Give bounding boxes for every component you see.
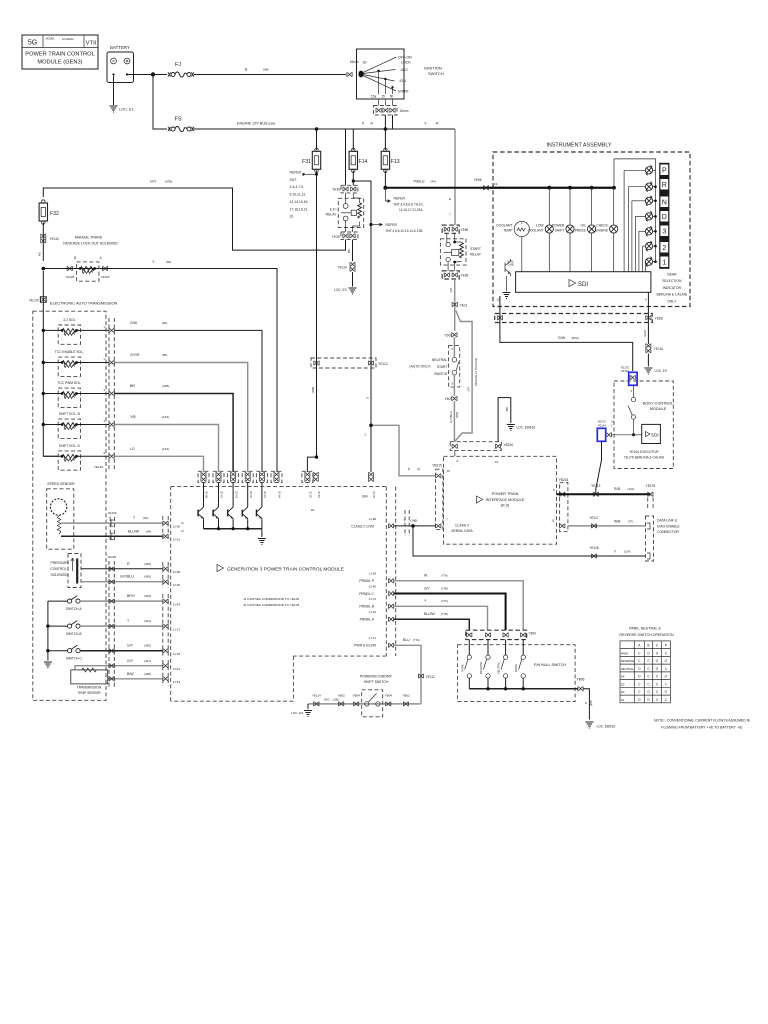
svg-text:YE117: YE117	[589, 516, 599, 520]
svg-text:5G: 5G	[28, 40, 37, 47]
svg-text:YE125: YE125	[65, 275, 74, 279]
connector YE112 pin	[314, 361, 319, 366]
connector J2-47	[216, 472, 221, 482]
wire	[43, 393, 62, 395]
ground LOC E8/E16	[507, 425, 515, 431]
fuse FS	[168, 126, 194, 131]
svg-text:YE109: YE109	[107, 511, 116, 515]
wire R	[81, 568, 163, 570]
svg-text:(436): (436)	[144, 575, 151, 579]
wire	[307, 704, 309, 709]
svg-text:(41B): (41B)	[162, 384, 169, 388]
connector 16mm pin 30	[347, 72, 352, 77]
svg-text:ENGINE: ENGINE	[595, 228, 608, 232]
connector YE86 pin 12	[497, 315, 502, 320]
connector YE129 pin	[109, 360, 114, 365]
svg-text:YE69: YE69	[461, 228, 469, 232]
connector pin 50	[390, 108, 395, 113]
fuse FJ	[168, 72, 194, 77]
svg-text:COOLANT: COOLANT	[528, 228, 544, 232]
svg-text:J2-09: J2-09	[173, 583, 181, 587]
PCM pin J1-18	[163, 648, 168, 653]
svg-text:YE129: YE129	[646, 484, 656, 488]
wire	[490, 187, 614, 189]
wire ignition 15 to bus	[384, 115, 386, 129]
svg-text:(145): (145)	[162, 415, 169, 419]
connector YE129 pin	[109, 599, 114, 604]
svg-text:SHT.3,4,5,6 & 7A,10,: SHT.3,4,5,6 & 7A,10,	[394, 202, 424, 206]
svg-text:(435): (435)	[144, 562, 151, 566]
svg-text:YB216: YB216	[504, 443, 514, 447]
svg-text:J1-57: J1-57	[317, 491, 321, 498]
svg-text:BLU/W: BLU/W	[128, 529, 140, 533]
svg-text:J2-08: J2-08	[173, 570, 181, 574]
connector YE69 pin	[452, 273, 457, 278]
ground LOC E8/E16	[585, 722, 593, 728]
connector YE129 pin	[109, 328, 114, 333]
connector YE129 pin	[109, 566, 114, 571]
connector YE11	[452, 302, 457, 307]
svg-text:YE164 EXECUTIVE: YE164 EXECUTIVE	[629, 450, 659, 454]
connector YE129	[41, 297, 46, 302]
svg-text:R: R	[436, 122, 439, 126]
wire P/R	[371, 425, 436, 476]
svg-text:LOC. E8/E16: LOC. E8/E16	[597, 725, 616, 729]
ground LOC: E3	[349, 288, 357, 294]
wire BLU/W	[394, 619, 470, 630]
svg-text:REVERSE SWITCH OPERATION: REVERSE SWITCH OPERATION	[619, 633, 674, 637]
wire	[642, 246, 644, 272]
svg-text:LOCK: LOCK	[401, 60, 411, 64]
connector YE125	[103, 266, 108, 271]
connector Y600 pin	[503, 633, 508, 638]
svg-text:ENGINE 12V BUS: ENGINE 12V BUS	[237, 122, 268, 126]
svg-text:P: P	[408, 468, 410, 472]
svg-text:LG: LG	[130, 447, 135, 451]
svg-text:RELAY: RELAY	[470, 252, 482, 256]
svg-text:DIAG ENABLE: DIAG ENABLE	[657, 524, 680, 528]
op: E.F.I relay U1	[326, 193, 364, 232]
wire Y	[394, 606, 488, 630]
svg-text:1: 1	[662, 260, 666, 267]
wire lamp to SDI	[613, 233, 615, 271]
PCM pin J2-09	[163, 579, 168, 584]
wire	[487, 640, 489, 655]
svg-text:B+: B+	[311, 508, 315, 512]
connector Y600 pin	[521, 633, 526, 638]
svg-text:START: START	[470, 247, 481, 251]
wire gear lamp	[636, 215, 646, 217]
svg-text:POWER: POWER	[552, 224, 565, 228]
svg-text:POWER TRAIN: POWER TRAIN	[492, 492, 519, 496]
svg-text:MODULE: MODULE	[650, 407, 667, 411]
svg-text:J2-43: J2-43	[234, 491, 238, 498]
wire	[42, 223, 44, 262]
svg-text:OFF-ON: OFF-ON	[398, 56, 412, 60]
gear lamp 1	[645, 165, 652, 175]
wire	[77, 329, 109, 331]
svg-text:G/Y: G/Y	[424, 586, 431, 590]
wire BR	[114, 394, 233, 473]
svg-text:SELECTION: SELECTION	[662, 279, 682, 283]
connector YB02	[403, 702, 408, 707]
ground instrument	[503, 293, 511, 299]
svg-text:ACC: ACC	[401, 68, 409, 72]
svg-text:SHT.: SHT.	[290, 178, 297, 182]
svg-text:(16B): (16B)	[268, 122, 275, 126]
gear lamp 4	[645, 211, 652, 221]
wire lamp to SDI	[569, 233, 571, 271]
ground LOC: E1	[110, 106, 118, 112]
wire	[48, 650, 68, 652]
connector YE110	[41, 234, 46, 244]
wire	[261, 529, 263, 537]
wire to ground	[498, 398, 511, 442]
connector J1-57	[313, 472, 318, 482]
wire	[653, 261, 656, 263]
svg-text:P/G: P/G	[38, 252, 42, 256]
svg-text:REVERSE: REVERSE	[479, 662, 483, 675]
wire to PCM IGN pin	[353, 181, 371, 472]
PCM pin J2-43	[163, 599, 168, 604]
svg-text:SDI: SDI	[578, 282, 588, 288]
svg-text:D1: D1	[621, 698, 625, 702]
wire	[505, 640, 507, 655]
connector YE129 pin	[109, 648, 114, 653]
svg-text:J1-18: J1-18	[173, 652, 181, 656]
svg-text:DATA LINK &: DATA LINK &	[657, 519, 678, 523]
connector strip YE129 right	[109, 318, 114, 470]
svg-text:(433): (433)	[144, 594, 151, 598]
connector YE69 pin	[444, 273, 449, 278]
svg-text:(64): (64)	[146, 529, 151, 533]
svg-text:>: >	[449, 212, 451, 216]
svg-text:J2-44: J2-44	[278, 491, 282, 498]
connector YE69 pin	[452, 227, 457, 232]
svg-text:B: B	[584, 702, 588, 704]
wire gear lamp	[624, 169, 645, 171]
svg-text:YB06: YB06	[577, 678, 585, 682]
wire	[261, 520, 263, 529]
svg-text:(11B): (11B)	[333, 698, 339, 702]
svg-text:(47B): (47B)	[165, 180, 172, 184]
ground PCM internal	[258, 539, 266, 545]
connector YE175/YE164	[630, 375, 635, 380]
svg-text:SHT.4,5,6,10,13,14 & 21B.: SHT.4,5,6,10,13,14 & 21B.	[386, 229, 424, 233]
svg-text:SHIFT SWITCH: SHIFT SWITCH	[364, 680, 389, 684]
svg-text:J1-17: J1-17	[173, 627, 181, 631]
svg-text:INSTRUMENT ASSEMBLY: INSTRUMENT ASSEMBLY	[546, 143, 612, 149]
svg-text:IGN: IGN	[362, 495, 368, 499]
PCM pin J2-05	[163, 521, 168, 526]
svg-text:SDI: SDI	[651, 432, 659, 437]
svg-text:Y/B: Y/B	[130, 415, 136, 419]
connector YE129 pin	[109, 579, 114, 584]
svg-text:TEMP: TEMP	[503, 228, 513, 232]
connector J1-20	[305, 472, 310, 482]
wire gear lamp	[632, 200, 646, 202]
svg-text:G/Y: G/Y	[150, 180, 157, 184]
wire Y 134	[413, 526, 646, 556]
wire G/Y 47B	[43, 188, 345, 250]
svg-text:16mm: 16mm	[400, 109, 409, 113]
wire	[218, 483, 220, 508]
svg-text:G,Y/B/LU: G,Y/B/LU	[449, 411, 453, 423]
wire	[454, 450, 456, 456]
svg-text:INDICATOR: INDICATOR	[663, 286, 682, 290]
svg-text:3: 3	[662, 229, 666, 236]
svg-text:15a: 15a	[371, 94, 377, 98]
svg-text:(16B): (16B)	[311, 387, 315, 394]
svg-text:(AUTO ONLY): (AUTO ONLY)	[410, 365, 431, 369]
wire refer stub	[385, 188, 387, 201]
svg-text:(MANUAL AL TRANS B): (MANUAL AL TRANS B)	[474, 358, 478, 386]
svg-text:30: 30	[363, 61, 367, 65]
lamp LOW COOLANT	[545, 225, 553, 233]
wire	[647, 354, 649, 367]
wire	[505, 678, 507, 689]
connector YE114	[314, 702, 319, 707]
svg-text:16: 16	[495, 460, 499, 464]
svg-text:YE110: YE110	[50, 237, 60, 241]
svg-text:PRESSURE: PRESSURE	[51, 561, 70, 565]
svg-text:F14: F14	[359, 159, 368, 165]
svg-text:MODEL: MODEL	[46, 37, 56, 41]
svg-text:O: O	[365, 397, 369, 399]
svg-text:R/B: R/B	[614, 487, 621, 491]
svg-text:B/W: B/W	[127, 672, 134, 676]
svg-text:2: 2	[662, 245, 666, 252]
svg-text:J1-32: J1-32	[369, 610, 377, 614]
wire P/N common	[469, 688, 577, 690]
svg-text:YE112: YE112	[591, 484, 601, 488]
svg-text:SWITCH-C: SWITCH-C	[66, 656, 83, 660]
wire G/Y	[454, 279, 456, 331]
svg-text:IGNITION: IGNITION	[424, 66, 442, 71]
svg-text:BLU: BLU	[403, 638, 410, 642]
svg-text:14,16,17,21,22A.: 14,16,17,21,22A.	[399, 208, 423, 212]
wire G/Y/BLU	[81, 581, 163, 583]
wire gauge to SDI	[521, 237, 523, 272]
svg-text:NOTE:- CONVENTIONAL CURRENT FL: NOTE:- CONVENTIONAL CURRENT FLOW IS ASSU…	[654, 719, 751, 723]
svg-text:YE129: YE129	[94, 465, 103, 469]
svg-text:BODY CONTROL: BODY CONTROL	[643, 402, 673, 406]
svg-text:SOLENOID: SOLENOID	[51, 573, 69, 577]
connector YE112	[418, 674, 423, 679]
wire	[261, 483, 263, 508]
svg-text:RELAY: RELAY	[326, 213, 338, 217]
wire gear lamp	[628, 186, 645, 188]
wire	[371, 224, 380, 226]
svg-text:NEUTRAL: NEUTRAL	[621, 667, 634, 671]
connector YE69 top	[442, 225, 459, 233]
svg-text:FS: FS	[174, 117, 181, 123]
connector YE39 bottom	[341, 232, 358, 240]
wire G/Y 447	[75, 666, 163, 670]
connector YE69 bottom	[442, 271, 459, 279]
PCM pin J2-01	[163, 534, 168, 539]
connector IGN pin	[369, 472, 374, 482]
wire W/B	[568, 525, 646, 527]
lamp POWER SHIFT	[566, 225, 574, 233]
svg-text:TEMP SENSOR: TEMP SENSOR	[77, 691, 101, 695]
svg-text:LOC. E3: LOC. E3	[291, 711, 303, 715]
wire G/W	[114, 330, 262, 472]
wire	[506, 276, 508, 292]
svg-text:PRNDL P: PRNDL P	[359, 579, 374, 583]
svg-text:TCC PWM SOL.: TCC PWM SOL.	[57, 381, 81, 385]
svg-text:(77H): (77H)	[413, 638, 420, 642]
wire	[247, 483, 249, 508]
connector 16mm below ignition	[374, 106, 398, 116]
svg-text:Y600: Y600	[529, 632, 537, 636]
wire	[522, 640, 524, 655]
svg-text:REFER: REFER	[290, 171, 302, 175]
svg-text:9,10,11,12,: 9,10,11,12,	[290, 193, 307, 197]
connector J2-43	[231, 472, 236, 482]
svg-text:J1-38: J1-38	[369, 572, 377, 576]
battery	[107, 45, 134, 83]
svg-text:REFER: REFER	[386, 223, 398, 227]
wire	[352, 129, 354, 150]
svg-text:J2-40: J2-40	[369, 584, 377, 588]
connector YE129 pin	[109, 676, 114, 681]
svg-text:GENERATION 3 POWER TRAIN CONTR: GENERATION 3 POWER TRAIN CONTROL MODULE	[227, 567, 344, 573]
svg-text:YE114: YE114	[312, 693, 321, 697]
wire	[247, 520, 249, 529]
PCM pin J1-98	[388, 524, 393, 529]
wire	[633, 419, 635, 435]
wire	[316, 129, 318, 150]
svg-text:COOLANT: COOLANT	[496, 224, 512, 228]
svg-text:(66): (66)	[166, 260, 171, 264]
svg-text:(44): (44)	[431, 180, 436, 184]
wire	[43, 455, 62, 457]
svg-text:16mm: 16mm	[350, 60, 359, 64]
svg-text:PARK: PARK	[460, 664, 464, 671]
svg-text:PRESS: PRESS	[575, 228, 587, 232]
wire Y to serial data	[394, 525, 436, 527]
wire F31 to PCM B+	[316, 171, 318, 458]
svg-text:PRNDL C: PRNDL C	[359, 592, 374, 596]
PCM pin J2-40	[388, 591, 393, 596]
svg-text:J2-01: J2-01	[173, 538, 181, 542]
connector YB215 left strip	[436, 469, 443, 529]
svg-text:N: N	[662, 200, 667, 207]
svg-text:G/W: G/W	[130, 321, 138, 325]
transmission dashed box	[33, 311, 106, 700]
connector YE112 pin	[368, 361, 373, 366]
svg-text:BR: BR	[130, 384, 135, 388]
connector YB02	[339, 702, 344, 707]
svg-text:YE69: YE69	[461, 274, 469, 278]
svg-text:YE125: YE125	[101, 275, 110, 279]
svg-text:B: B	[74, 256, 76, 260]
svg-text:(146): (146)	[162, 447, 169, 451]
wire battery negative to ground	[113, 76, 115, 105]
svg-text:L: L	[365, 433, 367, 437]
ground LOC E3	[644, 368, 652, 374]
svg-text:(14B): (14B)	[411, 519, 418, 523]
svg-text:YE112: YE112	[378, 362, 388, 366]
wire	[631, 201, 633, 272]
svg-text:GEAR: GEAR	[667, 273, 677, 277]
connector J1-76	[259, 472, 264, 482]
wire Y/R to start relay	[454, 129, 456, 225]
wire refer tap	[306, 173, 317, 175]
connector YB06	[578, 686, 583, 691]
svg-text:YE129: YE129	[107, 555, 116, 559]
svg-text:J1-46: J1-46	[372, 491, 376, 498]
svg-text:START: START	[398, 90, 410, 94]
wire FJ to ignition switch	[194, 74, 346, 76]
wire	[43, 424, 62, 426]
connector YB216 pin 6	[452, 444, 457, 449]
wire	[653, 186, 656, 188]
wire	[487, 678, 489, 689]
connector row YE133/YE132	[198, 471, 209, 482]
wire	[384, 129, 386, 150]
svg-text:YE116: YE116	[654, 347, 664, 351]
lamp OIL PRESS	[588, 225, 596, 233]
svg-text:ONLY: ONLY	[667, 299, 677, 303]
svg-text:YE66: YE66	[474, 178, 482, 182]
svg-text:VTII: VTII	[86, 41, 97, 47]
svg-text:(7F): (7F)	[628, 519, 633, 523]
wire	[48, 625, 68, 627]
svg-text:(30B): (30B)	[590, 700, 593, 706]
svg-text:CONTROL: CONTROL	[51, 567, 67, 571]
svg-text:D3: D3	[621, 682, 625, 686]
svg-text:SERIAL DATA: SERIAL DATA	[451, 529, 473, 533]
svg-text:PARK: PARK	[621, 651, 629, 655]
PCM pin J1-72	[388, 604, 393, 609]
connector YE118	[591, 554, 596, 559]
wire F14 to YE39	[352, 171, 354, 186]
svg-text:SWITCH: SWITCH	[428, 71, 444, 76]
connector strip YE86	[495, 314, 653, 323]
wire G/Y	[394, 594, 506, 631]
connector YB215 pin 7	[436, 524, 441, 529]
connector YB04	[354, 702, 359, 707]
svg-text:F31: F31	[302, 159, 311, 165]
speed sender	[47, 482, 75, 549]
wire	[653, 230, 656, 232]
svg-text:J2-48: J2-48	[205, 491, 209, 498]
wire	[43, 329, 62, 331]
wire BLU	[394, 645, 421, 704]
wire	[635, 216, 637, 271]
wire T	[80, 625, 163, 627]
svg-text:J1-72: J1-72	[369, 597, 377, 601]
svg-text:G/Y/R: G/Y/R	[130, 353, 140, 357]
wire lamp to SDI	[591, 233, 593, 271]
svg-text:17,18,19,21,: 17,18,19,21,	[290, 207, 309, 211]
svg-text:(441): (441)	[628, 487, 635, 491]
svg-text:PWR & ECON: PWR & ECON	[354, 644, 376, 648]
connector YE112	[593, 492, 598, 497]
connector strip YB216	[450, 442, 501, 451]
svg-text:SHIFT SOL. A: SHIFT SOL. A	[59, 444, 81, 448]
svg-text:J2-61: J2-61	[173, 667, 181, 671]
svg-text:B/R: B/R	[347, 249, 351, 253]
svg-text:DRIVE: DRIVE	[514, 664, 518, 672]
svg-text:YE129: YE129	[29, 298, 39, 302]
wire	[77, 424, 109, 426]
svg-text:(77D): (77D)	[441, 612, 448, 616]
connector J2-44	[274, 472, 279, 482]
svg-text:INTERFACE MODULE: INTERFACE MODULE	[486, 498, 525, 502]
